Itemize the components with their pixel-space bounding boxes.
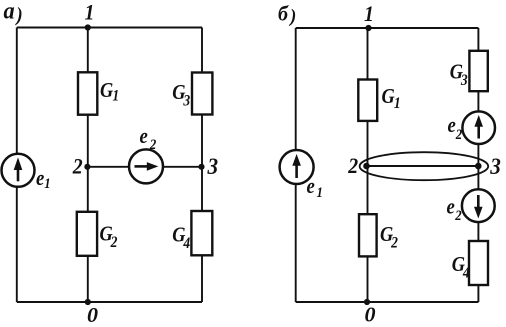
wire bottom a xyxy=(17,301,202,303)
source e1 (circuit a) xyxy=(2,154,35,187)
svg-text:1: 1 xyxy=(85,0,95,25)
svg-text:2: 2 xyxy=(72,154,83,179)
source e2 lower (circuit b) xyxy=(462,189,495,222)
ellipse highlight around wire 2-3 (circuit b) xyxy=(360,152,489,180)
node 2 (circuit a) xyxy=(84,164,90,170)
wire middle a xyxy=(87,28,89,303)
wire bottom b xyxy=(296,301,479,303)
node 1 (circuit a) xyxy=(85,24,91,30)
svg-text:2: 2 xyxy=(347,153,358,178)
resistor G3 (circuit a) xyxy=(192,73,212,115)
node 3 (circuit a) xyxy=(198,164,204,170)
source e1 (circuit b) xyxy=(280,150,314,184)
wire top b xyxy=(296,27,479,29)
wire left a xyxy=(16,28,18,303)
wire node2-node3 a xyxy=(88,166,202,168)
node 0 (circuit b) xyxy=(364,299,370,305)
wire right a xyxy=(201,28,203,303)
wire node2-node3 b xyxy=(367,165,480,167)
resistor G1 (circuit a) xyxy=(78,72,97,114)
wire middle b xyxy=(367,28,369,302)
resistor G4 (circuit b) xyxy=(469,241,488,285)
svg-text:1: 1 xyxy=(364,1,374,26)
node 1 (circuit b) xyxy=(365,25,371,31)
svg-text:0: 0 xyxy=(87,303,98,326)
source e2 upper (circuit b) xyxy=(462,111,495,144)
svg-text:б): б) xyxy=(278,3,296,28)
source e2 (circuit a) xyxy=(129,149,163,183)
resistor G2 (circuit b) xyxy=(359,214,377,256)
node 0 (circuit a) xyxy=(85,299,91,305)
wire top a xyxy=(17,27,202,29)
resistor G1 (circuit b) xyxy=(358,80,377,121)
node 3 (circuit b) xyxy=(475,163,482,170)
resistor G3 (circuit b) xyxy=(469,51,487,91)
svg-text:3: 3 xyxy=(207,153,219,179)
svg-text:0: 0 xyxy=(365,303,376,326)
resistor G4 (circuit a) xyxy=(191,211,212,255)
node 2 (circuit b) xyxy=(363,163,370,170)
svg-text:3: 3 xyxy=(489,153,501,179)
svg-text:а): а) xyxy=(4,0,23,26)
wire left b xyxy=(295,28,297,302)
wire right b xyxy=(477,28,479,302)
resistor G2 (circuit a) xyxy=(77,212,97,256)
